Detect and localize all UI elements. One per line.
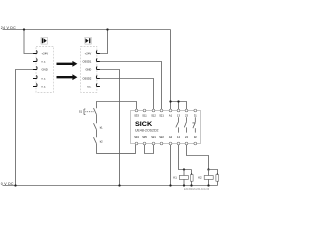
- terminal 32: [194, 142, 197, 145]
- svg-text:n.c.: n.c.: [42, 84, 47, 88]
- sender plug contact n.c.: [33, 59, 37, 62]
- wire: S1 to k1: [96, 115, 98, 124]
- junction A2 on 0V rail: [169, 184, 171, 186]
- wire: rail to sender +24V: [24, 30, 33, 54]
- terminal S21: [160, 109, 163, 112]
- junction on 0V rail (receiver GND): [118, 184, 120, 186]
- svg-text:K1: K1: [173, 176, 177, 180]
- sender icon: [41, 37, 47, 44]
- wire: k2 to terminal S34: [97, 144, 136, 154]
- terminal 13: [177, 109, 180, 112]
- svg-text:k2: k2: [100, 139, 103, 143]
- wire: sender GND to 0V rail: [16, 70, 34, 186]
- svg-text:OSSD2: OSSD2: [83, 76, 92, 80]
- svg-text:n.c.: n.c.: [42, 59, 47, 63]
- junction K1 suppressor on 0V rail: [190, 184, 192, 186]
- top terminal labels: [134, 113, 197, 117]
- svg-text:S33: S33: [134, 113, 139, 117]
- junction 13 branch: [177, 100, 179, 102]
- relay coil K1: [183, 170, 185, 186]
- terminal S33: [135, 109, 138, 112]
- svg-text:S1: S1: [79, 110, 83, 114]
- svg-text:k1: k1: [100, 125, 103, 129]
- junction K1 on 0V rail: [183, 184, 185, 186]
- receiver plug contact n.c.: [96, 84, 100, 87]
- suppressor for K1: [191, 170, 193, 186]
- light beam arrow 2: [57, 74, 78, 80]
- sender plug contact n.c.: [33, 84, 37, 87]
- svg-text:S21: S21: [159, 113, 164, 117]
- svg-text:+24V: +24V: [42, 51, 49, 55]
- wire: 0 V DC rail: [3, 185, 218, 187]
- wire: receiver +24V to rail: [100, 30, 108, 54]
- suppressor for K2: [209, 170, 218, 186]
- wire: k1 to k2: [96, 130, 98, 138]
- junction on 0V rail (sender GND): [14, 184, 16, 186]
- wire: rail down to A1: [170, 30, 172, 110]
- wire: OSSD1 to terminal S21: [100, 62, 162, 110]
- svg-text:GND: GND: [42, 67, 48, 71]
- svg-text:SICK: SICK: [135, 121, 152, 128]
- contact k1: [94, 123, 97, 130]
- junction K1 coil feed: [183, 168, 185, 170]
- receiver icon: [85, 37, 91, 44]
- light beam arrow 1: [57, 61, 78, 67]
- reset button S1: [84, 102, 137, 115]
- receiver plug contact OSSD1: [96, 59, 100, 62]
- relay coil K2: [208, 170, 210, 186]
- wire: terminal 14 to K1 bus: [179, 145, 192, 170]
- terminal S12: [152, 109, 155, 112]
- wire: 24 V DC rail: [3, 29, 171, 31]
- sender plug contact n.c.: [33, 76, 37, 79]
- svg-text:OSSD1: OSSD1: [83, 59, 92, 63]
- svg-text:S21: S21: [151, 135, 156, 139]
- junction K2 on 0V rail: [207, 184, 209, 186]
- svg-text:E314500/11/30 AUG 06: E314500/11/30 AUG 06: [184, 188, 210, 191]
- svg-text:S34: S34: [134, 135, 139, 139]
- internal contact 31-32 (NC): [192, 117, 195, 132]
- svg-text:S12: S12: [151, 113, 156, 117]
- terminal S34: [135, 142, 138, 145]
- terminal S22: [160, 142, 163, 145]
- terminal S21b: [152, 142, 155, 145]
- terminal S11: [143, 109, 146, 112]
- terminal A2: [169, 142, 172, 145]
- terminal 31: [194, 109, 197, 112]
- svg-text:A2: A2: [169, 135, 173, 139]
- safety relay U1 box: [131, 111, 201, 144]
- terminal 14: [177, 142, 180, 145]
- receiver box (dashed outline): [81, 46, 97, 92]
- terminal 24: [185, 142, 188, 145]
- svg-text:n.c.: n.c.: [42, 76, 47, 80]
- svg-text:GND: GND: [86, 67, 92, 71]
- terminal circles bottom row: [135, 142, 197, 145]
- svg-text:S22: S22: [159, 135, 164, 139]
- wire: A2 to 0V rail: [170, 145, 172, 186]
- svg-text:UE48-2OS2D2: UE48-2OS2D2: [135, 129, 159, 133]
- svg-text:K2: K2: [198, 176, 202, 180]
- junction on 24V rail (sender): [23, 28, 25, 30]
- receiver plug contact GND: [96, 67, 100, 70]
- terminal circles top row: [135, 109, 197, 112]
- sender plug contact GND: [33, 67, 37, 70]
- junction A1 branch: [169, 100, 171, 102]
- receiver plug contact +24V: [96, 51, 100, 54]
- receiver plug contact OSSD2: [96, 76, 100, 79]
- terminal S35: [143, 142, 146, 145]
- sender plug contact +24V: [33, 51, 37, 54]
- bottom terminal labels: [134, 135, 197, 139]
- terminal 23: [185, 109, 188, 112]
- contact k2: [94, 137, 97, 144]
- svg-text:A1: A1: [169, 113, 173, 117]
- junction K2 coil feed: [207, 168, 209, 170]
- wire: OSSD2 to terminal S12: [100, 79, 154, 110]
- internal contact 13-14: [176, 117, 179, 132]
- jumper S35 to S21: [145, 145, 154, 154]
- svg-text:+24V: +24V: [85, 51, 92, 55]
- junction on 24V rail (receiver): [106, 28, 108, 30]
- wire: A1 branch to 13 and 23: [171, 102, 187, 110]
- terminal A1: [169, 109, 172, 112]
- svg-text:S11: S11: [142, 113, 147, 117]
- wire: terminal 24 to K2 bus: [187, 145, 209, 170]
- svg-text:S35: S35: [142, 135, 147, 139]
- sender box (dashed outline): [36, 46, 53, 92]
- wire: receiver GND to 0V rail: [100, 70, 120, 186]
- internal contact 23-24: [184, 117, 186, 132]
- svg-text:n.c.: n.c.: [87, 85, 91, 88]
